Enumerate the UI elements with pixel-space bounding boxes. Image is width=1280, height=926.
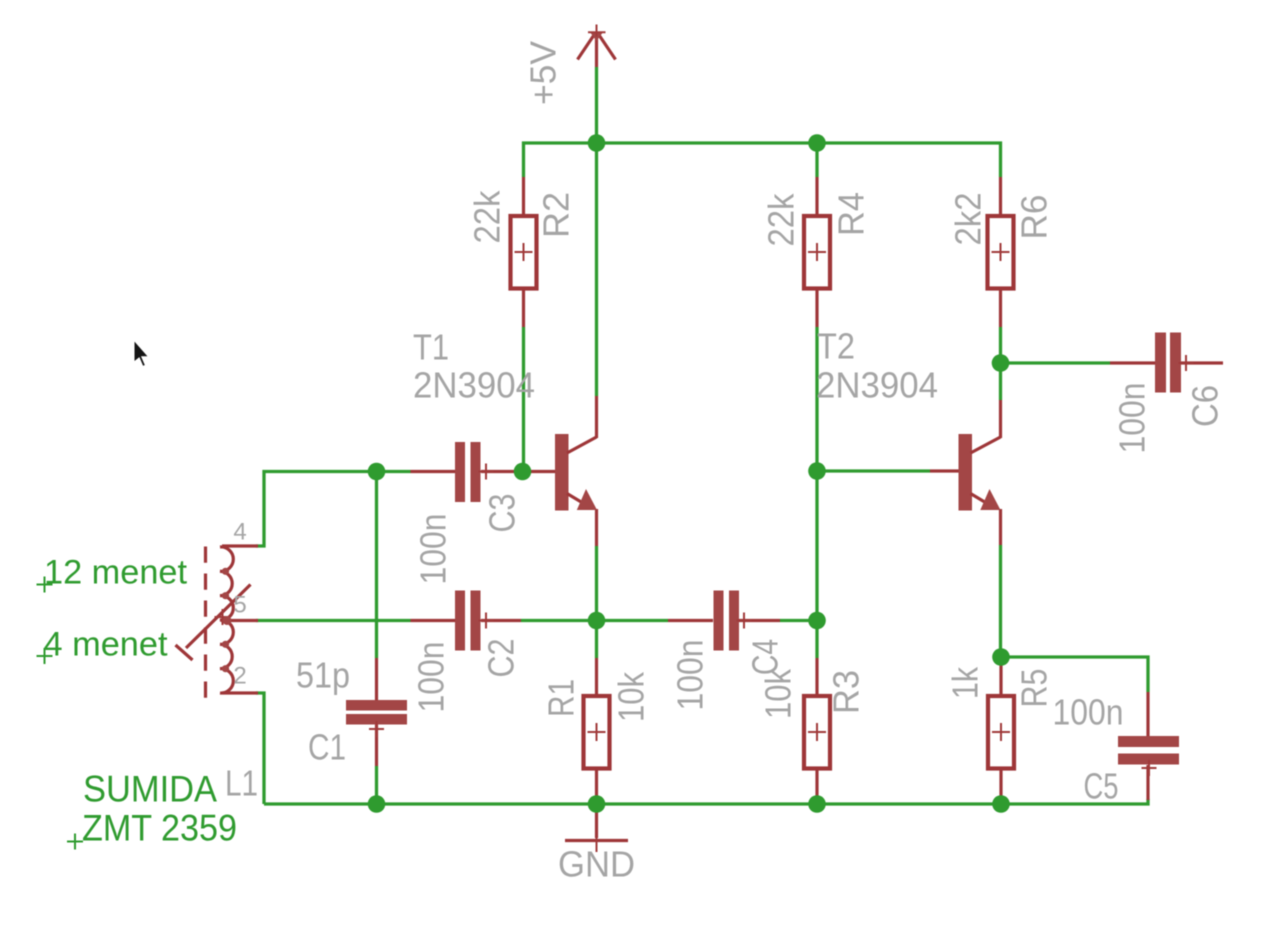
label ZMT origin cross [67,834,83,850]
wire center row left [256,619,411,622]
pin R6 top lead [999,177,1002,215]
wire C1 bottom to ground [375,766,378,804]
pin C4 left lead [668,619,713,622]
wire center row right [780,619,817,622]
svg-text:2N3904: 2N3904 [816,365,938,406]
svg-text:22k: 22k [761,193,802,247]
pin L1 p2 lead [222,691,258,694]
transistor T1 [555,434,597,511]
resistor R2 [511,216,537,289]
pin T1 collector lead [595,396,598,438]
wire top rail [524,143,1001,177]
wire R5 junction to C5 top [1001,657,1148,692]
pin C6 right lead [1181,361,1223,364]
svg-text:C5: C5 [1084,766,1119,807]
wire ground rail [264,799,1148,804]
svg-text:2N3904: 2N3904 [413,365,535,406]
svg-text:4: 4 [233,519,246,546]
wire T1 collector column [595,143,598,396]
svg-text:C2: C2 [481,639,522,678]
pin GND stub [595,804,598,838]
svg-text:GND: GND [558,844,635,885]
svg-text:2: 2 [233,663,246,690]
node center row R1 junction [588,612,606,630]
pin C5 top lead [1146,692,1149,736]
pin C3 right lead [481,470,515,473]
pin R4 bottom lead [815,289,818,327]
pin T1 emitter lead [595,509,598,546]
node T2 collector junction [992,354,1010,372]
resistor R6 [988,216,1014,289]
node T2 base junction [808,462,826,480]
node R1 ground junction [588,795,606,813]
wire T2 base horizontal [817,469,930,472]
svg-text:C3: C3 [482,494,523,533]
resistor R3 [804,696,830,769]
pin R3 top lead [815,658,818,695]
wire top-left row to C3 [256,472,411,547]
svg-text:R5: R5 [1014,669,1055,708]
svg-text:L1: L1 [225,763,258,804]
pin C2 right lead [481,619,521,622]
pin T2 emitter lead [999,509,1002,545]
pin C1 bottom lead [375,724,378,766]
wire R4 top [815,143,818,177]
label 4 menet origin cross [37,648,53,664]
pin R5 bottom lead [999,769,1002,804]
resistor R1 [584,696,610,769]
pin R1 bottom lead [595,769,598,804]
wire T2 base junction down to center row [815,471,818,621]
capacitor C4 [714,591,752,651]
node C1 top junction [368,463,386,481]
pin C2 left lead [411,619,456,622]
wire T1 emitter to R1 [595,546,598,658]
capacitor C6 [1155,333,1194,393]
mouse cursor [134,339,150,367]
pin C4 right lead [739,619,780,622]
pin R4 top lead [815,177,818,215]
capacitor C5 [1118,736,1179,776]
node R5 ground junction [992,795,1010,813]
svg-text:R2: R2 [536,192,577,238]
pin T2 collector lead [999,400,1002,438]
node T1 base junction [514,463,532,481]
svg-text:2k2: 2k2 [948,193,989,246]
wire +5V stem [595,67,598,143]
node center row R3 junction [808,612,826,630]
svg-text:12 menet: 12 menet [44,554,188,592]
node C1 ground junction [368,795,386,813]
svg-text:51p: 51p [296,655,350,696]
wire R6 bottom to collector junction [999,327,1002,400]
pin R6 bottom lead [999,289,1002,327]
svg-text:R4: R4 [831,192,872,236]
wire R2 bottom to C3 junction [522,327,525,472]
pin R2 top lead [522,177,525,215]
svg-text:C6: C6 [1185,385,1226,427]
wire center row middle [521,619,668,622]
node R4 rail junction [808,134,826,152]
wire C1 column [375,472,378,659]
pin R3 bottom lead [815,769,818,804]
svg-text:+5V: +5V [523,41,564,105]
node R3 ground junction [808,795,826,813]
capacitor C2 [455,591,494,651]
svg-text:T2: T2 [817,326,855,367]
wire R4 bottom to T2 base junction [815,327,818,471]
svg-text:R1: R1 [541,679,582,717]
svg-text:ZMT 2359: ZMT 2359 [82,807,237,849]
svg-text:R3: R3 [826,670,867,714]
resistor R4 [804,216,830,289]
pin C5 bottom lead [1146,765,1149,800]
node +5V rail junction [588,134,606,152]
pin T2 base lead [930,469,959,472]
wire L1 pin2 down [256,693,264,804]
svg-text:C1: C1 [308,727,346,768]
capacitor C3 [455,442,494,502]
label 12 menet origin cross [37,577,53,593]
pin R1 top lead [595,658,598,695]
svg-text:R6: R6 [1014,195,1055,240]
pin L1 p4 lead [222,544,258,547]
svg-text:5: 5 [233,592,246,619]
svg-text:100n: 100n [413,514,454,585]
svg-text:100n: 100n [1112,383,1153,454]
capacitor C1 [346,700,407,737]
inductor L1 [176,547,251,699]
pin R2 bottom lead [522,289,525,327]
svg-text:10k: 10k [611,671,652,722]
power +5V symbol [578,25,616,68]
svg-text:100n: 100n [411,642,452,713]
svg-text:1k: 1k [945,666,986,699]
pin R5 top lead [999,659,1002,695]
pin C1 top lead [375,658,378,700]
pin C3 left lead [411,470,456,473]
svg-text:100n: 100n [1053,692,1124,733]
pin C6 left lead [1110,361,1155,364]
svg-text:22k: 22k [467,190,508,244]
svg-text:100n: 100n [670,640,711,711]
ground symbol GND [565,838,628,852]
pin L1 p5 lead [221,619,258,622]
svg-text:T1: T1 [413,327,449,368]
transistor T2 [959,434,1001,511]
wire T2 emitter to R5 junction [999,545,1002,661]
svg-text:C4: C4 [745,639,786,675]
wire C6 row [1001,361,1111,364]
svg-text:4 menet: 4 menet [44,626,169,664]
resistor R5 [988,696,1014,769]
node R5 top junction [992,648,1010,666]
pin T1 base lead [523,470,556,473]
wire R3 junction down [815,621,818,659]
svg-text:SUMIDA: SUMIDA [83,768,217,810]
